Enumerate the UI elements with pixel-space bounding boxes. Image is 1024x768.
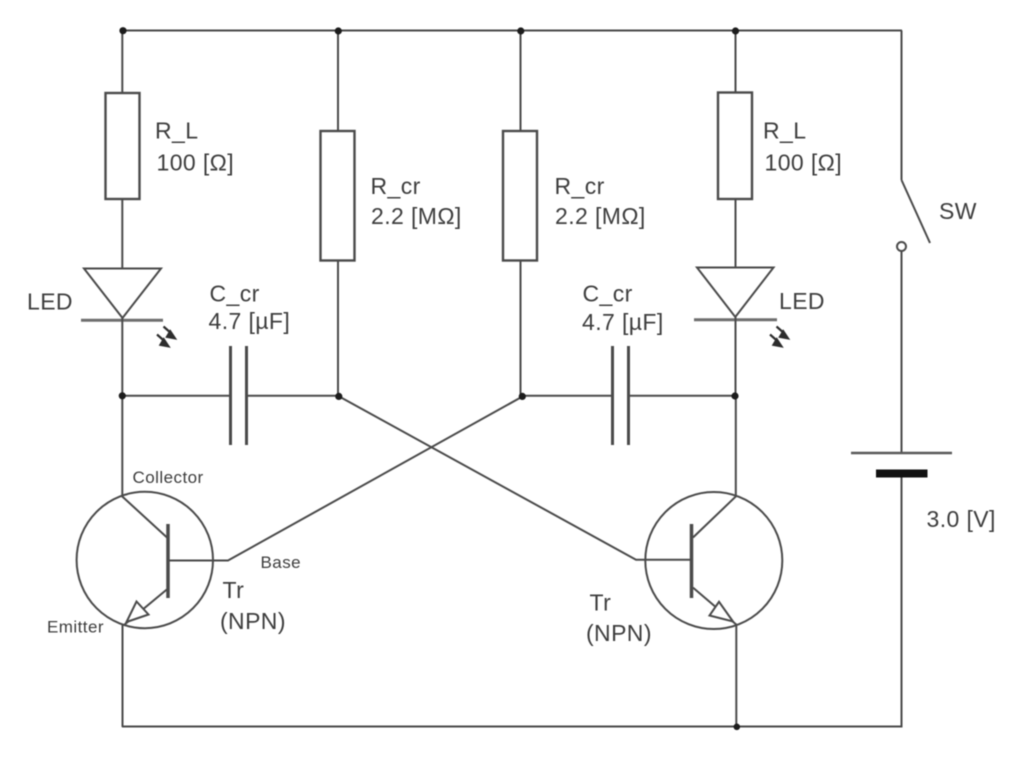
svg-text:C_cr: C_cr xyxy=(583,281,633,307)
wire top node to resistor R_cr 2 xyxy=(520,31,522,132)
wire right drop to switch xyxy=(901,31,903,181)
wire resistor R_cr 2 to node C xyxy=(520,261,522,397)
wire LED left to node A xyxy=(121,318,123,396)
LED right emission arrow 2 xyxy=(770,335,783,348)
node dot A xyxy=(119,392,126,399)
svg-text:Tr: Tr xyxy=(223,577,245,603)
capacitor C_cr right plate 2 xyxy=(627,346,630,445)
transistor Q2 body circle xyxy=(645,492,782,629)
svg-text:2.2 [MΩ]: 2.2 [MΩ] xyxy=(555,203,646,229)
LED left emission arrow 2 xyxy=(157,335,170,348)
transistor Q2 emitter line xyxy=(693,588,737,625)
wire Q2 emitter to bottom rail xyxy=(735,625,737,727)
svg-text:Base: Base xyxy=(261,553,302,572)
resistor R_L left body xyxy=(106,93,140,199)
wire battery to bottom rail xyxy=(901,478,903,728)
wire node C to capacitor C_cr right xyxy=(521,395,611,397)
transistor Q1 emitter line xyxy=(124,590,167,626)
svg-text:C_cr: C_cr xyxy=(210,281,260,307)
wire top node to resistor R_L right xyxy=(735,31,737,93)
wire node A to capacitor C_cr left xyxy=(122,395,229,397)
svg-text:Collector: Collector xyxy=(133,468,204,487)
svg-text:4.7 [µF]: 4.7 [µF] xyxy=(209,308,291,334)
node dot C xyxy=(519,393,526,400)
wire switch to battery xyxy=(901,251,903,452)
svg-text:R_L: R_L xyxy=(763,118,806,144)
svg-text:SW: SW xyxy=(939,198,977,224)
wire bottom rail xyxy=(122,726,903,728)
node dot top rail 1 xyxy=(119,27,126,34)
svg-text:Emitter: Emitter xyxy=(47,618,104,637)
wire top node to resistor R_L left xyxy=(121,31,123,94)
resistor R_L right body xyxy=(718,93,752,200)
battery negative plate xyxy=(876,470,928,478)
battery positive plate xyxy=(851,452,952,455)
LED right cathode bar xyxy=(694,318,777,321)
wire cross-coupling node C to base of Tr left xyxy=(169,396,523,560)
capacitor C_cr left plate 1 xyxy=(229,346,232,445)
switch SW contact circle xyxy=(897,242,906,251)
transistor Q1 collector wire xyxy=(122,396,167,538)
LED left cathode bar xyxy=(81,319,163,322)
node dot top rail 4 xyxy=(732,27,739,34)
svg-text:LED: LED xyxy=(27,289,73,315)
LED right emission arrow 1 xyxy=(777,327,790,340)
svg-text:R_cr: R_cr xyxy=(555,173,605,199)
svg-text:Tr: Tr xyxy=(590,590,612,616)
wire capacitor right to node D xyxy=(630,395,735,397)
svg-text:(NPN): (NPN) xyxy=(586,620,652,646)
svg-text:4.7 [µF]: 4.7 [µF] xyxy=(582,309,664,335)
svg-text:R_L: R_L xyxy=(155,118,198,144)
node dot B xyxy=(335,393,342,400)
capacitor C_cr right plate 1 xyxy=(611,346,614,445)
wire LED right to node D xyxy=(735,317,737,396)
wire cross-coupling node B to base of Tr right xyxy=(339,396,690,559)
wire resistor R_cr 1 to node B xyxy=(337,261,339,397)
transistor Q2 emitter arrowhead xyxy=(710,602,734,622)
wire resistor to LED left xyxy=(121,199,123,269)
node dot top rail 2 xyxy=(335,27,342,34)
svg-text:R_cr: R_cr xyxy=(371,173,421,199)
switch SW lever xyxy=(902,180,931,243)
svg-text:100 [Ω]: 100 [Ω] xyxy=(765,150,843,176)
wire top node to resistor R_cr 1 xyxy=(337,31,339,132)
resistor R_cr 2 body xyxy=(503,131,537,261)
svg-text:(NPN): (NPN) xyxy=(220,608,286,634)
wire capacitor left to node B xyxy=(248,395,339,397)
svg-text:100 [Ω]: 100 [Ω] xyxy=(157,150,235,176)
LED left anode triangle xyxy=(84,269,161,319)
node dot top rail 3 xyxy=(517,27,524,34)
node dot D xyxy=(731,392,738,399)
capacitor C_cr left plate 2 xyxy=(245,346,248,445)
transistor Q1 base bar xyxy=(166,524,170,598)
transistor Q2 collector wire xyxy=(693,396,736,538)
node dot bottom rail xyxy=(734,724,741,731)
transistor Q1 body circle xyxy=(77,492,213,628)
svg-text:3.0 [V]: 3.0 [V] xyxy=(927,506,996,532)
LED right anode triangle xyxy=(697,268,774,318)
wire top rail xyxy=(122,30,902,32)
wire resistor to LED right xyxy=(735,199,737,268)
LED left emission arrow 1 xyxy=(164,327,177,340)
transistor Q2 base bar xyxy=(690,524,694,598)
svg-text:LED: LED xyxy=(779,288,825,314)
transistor Q1 emitter arrowhead xyxy=(127,602,149,623)
wire Q1 emitter to bottom rail xyxy=(122,625,124,727)
resistor R_cr 1 body xyxy=(321,131,355,261)
svg-text:2.2 [MΩ]: 2.2 [MΩ] xyxy=(371,203,462,229)
